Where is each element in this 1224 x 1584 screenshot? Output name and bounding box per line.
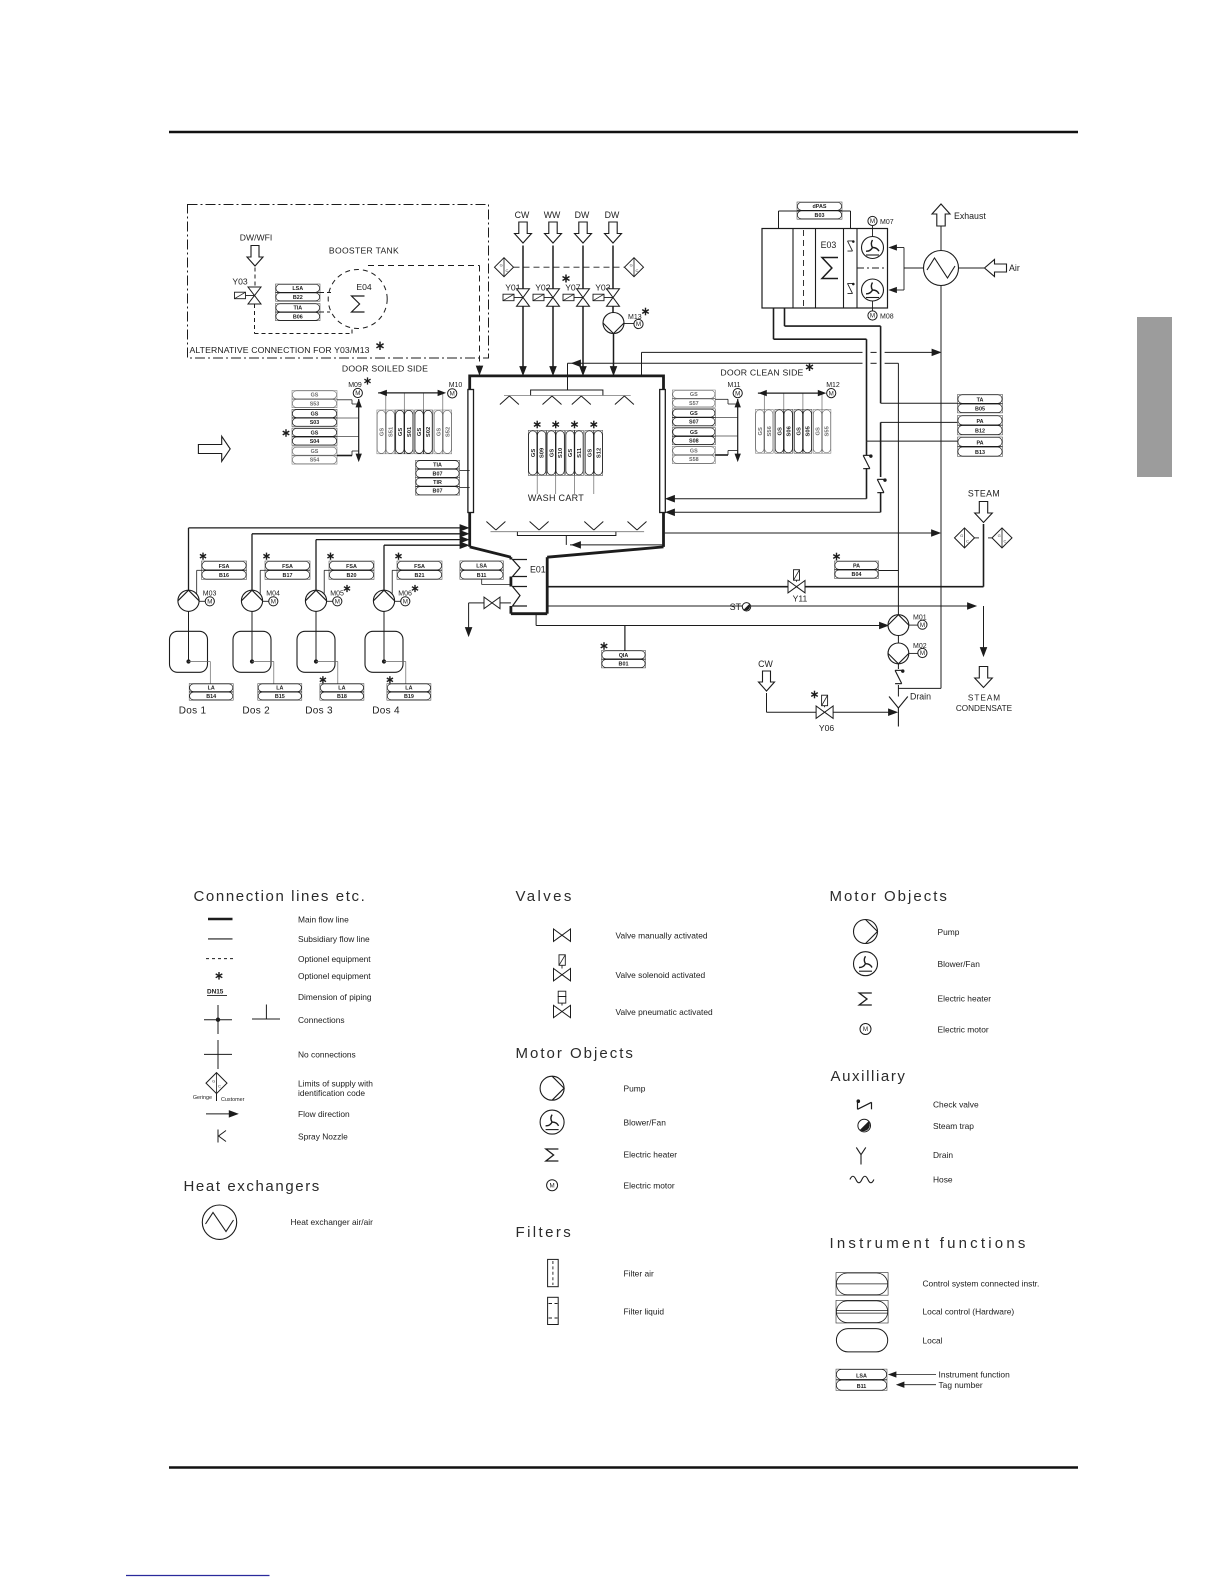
- cart drive arrow M12: [758, 392, 824, 394]
- alternative connection enclosure: [188, 205, 489, 359]
- wire: [612, 246, 614, 289]
- svg-text:Pump: Pump: [624, 1084, 646, 1094]
- svg-text:LA: LA: [405, 686, 412, 692]
- svg-text:GS: GS: [816, 427, 822, 436]
- instrument stack soiled outer: [292, 391, 337, 408]
- svg-text:FSA: FSA: [282, 564, 293, 570]
- valve Y02 solenoid: [547, 289, 560, 298]
- svg-text:GS: GS: [379, 428, 385, 437]
- svg-text:S12: S12: [596, 448, 602, 458]
- svg-text:M09: M09: [348, 382, 362, 389]
- wire: [368, 265, 480, 267]
- valve Y07 solenoid: [577, 289, 590, 298]
- svg-text:Drain: Drain: [910, 692, 931, 702]
- wire: [320, 292, 333, 294]
- wire taps soiled stack: [337, 399, 352, 401]
- valve Y03 solenoid: [607, 289, 620, 298]
- svg-text:S55: S55: [825, 425, 831, 436]
- recirc downcomer wire: [897, 363, 899, 614]
- transfer arrow hollow: [198, 436, 230, 461]
- svg-text:S02: S02: [426, 427, 432, 437]
- wire: [324, 569, 329, 571]
- bottom spray header: [517, 532, 616, 536]
- wire: [552, 307, 554, 373]
- wire: [766, 693, 768, 712]
- svg-text:LA: LA: [276, 686, 283, 692]
- svg-text:B22: B22: [293, 295, 303, 301]
- svg-text:DOOR SOILED SIDE: DOOR SOILED SIDE: [342, 364, 428, 374]
- svg-text:DW: DW: [575, 210, 590, 220]
- wire level tap: [384, 661, 406, 663]
- svg-text:Instrument functions: Instrument functions: [830, 1235, 1029, 1252]
- instrument dPAS B03: [797, 202, 842, 219]
- svg-text:Spray Nozzle: Spray Nozzle: [298, 1131, 348, 1141]
- legend filter air: [548, 1259, 559, 1286]
- svg-text:CW: CW: [758, 659, 773, 669]
- inlet arrow CW: [515, 222, 532, 243]
- legend blower right: [854, 952, 878, 976]
- svg-text:M05: M05: [330, 591, 344, 598]
- motor M07: [868, 216, 877, 225]
- drain symbol: [889, 697, 898, 709]
- wire taps clean stack: [715, 398, 728, 400]
- valve Y06 solenoid: [816, 706, 825, 718]
- svg-text:GS: GS: [417, 428, 423, 437]
- svg-text:DW/WFI: DW/WFI: [240, 233, 272, 243]
- svg-text:LSA: LSA: [476, 564, 487, 570]
- wire: [522, 246, 524, 289]
- svg-text:M02: M02: [913, 643, 927, 650]
- svg-text:S52: S52: [445, 427, 451, 437]
- inlet CW bottom arrow: [759, 671, 775, 691]
- svg-text:B20: B20: [347, 573, 357, 579]
- svg-text:S58: S58: [689, 457, 699, 463]
- wire: [582, 246, 584, 289]
- dosing riser wire M03: [188, 528, 190, 590]
- svg-text:B12: B12: [975, 429, 985, 435]
- chamber instruments GS S09-S12: [536, 421, 538, 429]
- top spray nozzles: [500, 396, 510, 405]
- steam line wire: [547, 586, 983, 588]
- svg-text:Subsidiary flow line: Subsidiary flow line: [298, 934, 370, 944]
- instrument LA B15: [258, 684, 302, 701]
- chamber vent wire: [665, 532, 936, 534]
- exhaust arrow: [932, 204, 950, 226]
- legend instrument function tag example: [836, 1369, 887, 1390]
- limit of supply diamond right: [625, 258, 644, 277]
- svg-text:G: G: [960, 533, 963, 538]
- svg-text:identification code: identification code: [298, 1088, 365, 1098]
- dosing tank 3: [315, 611, 317, 660]
- svg-text:Optionel equipment: Optionel equipment: [298, 954, 371, 964]
- svg-text:B16: B16: [219, 573, 229, 579]
- svg-text:B17: B17: [283, 573, 293, 579]
- svg-text:M: M: [403, 599, 408, 606]
- legend spray nozzle: [217, 1130, 219, 1143]
- legend valve solenoid activated: [559, 955, 565, 966]
- footer link line: [126, 1575, 270, 1577]
- check valve E03 upper: [847, 240, 854, 251]
- svg-text:GS: GS: [758, 427, 764, 436]
- wire to heat exchanger: [904, 267, 923, 269]
- wire: [260, 569, 265, 571]
- svg-text:B21: B21: [415, 573, 425, 579]
- svg-text:Local control (Hardware): Local control (Hardware): [923, 1306, 1015, 1316]
- svg-text:WW: WW: [544, 210, 561, 220]
- dosing riser wire M06: [383, 545, 385, 590]
- wire fan inlet upper: [891, 247, 904, 249]
- instrument TIA B06: [276, 304, 321, 321]
- svg-text:DOOR CLEAN SIDE: DOOR CLEAN SIDE: [720, 368, 803, 378]
- svg-text:B01: B01: [619, 662, 629, 668]
- fan M07: [862, 237, 884, 259]
- svg-text:TA: TA: [977, 397, 984, 403]
- sump drain wire: [535, 614, 537, 626]
- air into chamber upper wire: [866, 468, 868, 499]
- check valve E03 lower: [847, 283, 854, 294]
- svg-text:FSA: FSA: [219, 564, 230, 570]
- steam supply diamond right: [992, 528, 1012, 548]
- svg-text:GS: GS: [797, 427, 803, 436]
- svg-text:B07: B07: [433, 471, 443, 477]
- svg-text:M: M: [829, 390, 834, 397]
- svg-text:M04: M04: [266, 591, 280, 598]
- svg-text:M12: M12: [826, 382, 840, 389]
- instrument FSA B20: [330, 553, 332, 560]
- wire: [582, 307, 584, 373]
- chamber funnel: [470, 547, 511, 557]
- motor M03: [205, 597, 214, 606]
- instrument LA B18: [322, 676, 324, 683]
- dosing tank 2: [251, 611, 253, 660]
- exhaust line: [940, 226, 942, 251]
- legend local control hardware: [836, 1300, 888, 1323]
- svg-text:PA: PA: [976, 440, 983, 446]
- svg-text:Heat exchangers: Heat exchangers: [184, 1178, 321, 1195]
- svg-text:Air: Air: [1009, 263, 1020, 273]
- booster tank E04: [328, 270, 387, 329]
- bottom rule: [169, 1466, 1078, 1469]
- check valve drain: [897, 664, 899, 669]
- svg-text:B07: B07: [433, 489, 443, 495]
- svg-text:Blower/Fan: Blower/Fan: [938, 959, 981, 969]
- svg-text:B03: B03: [815, 213, 825, 219]
- legend pump mid: [540, 1076, 564, 1100]
- svg-text:Y06: Y06: [819, 723, 835, 733]
- svg-text:M03: M03: [203, 591, 217, 598]
- svg-text:B14: B14: [206, 694, 216, 700]
- svg-text:TIA: TIA: [433, 463, 442, 469]
- wire level tap: [252, 661, 274, 663]
- svg-text:S05: S05: [805, 425, 811, 436]
- legend blower mid: [540, 1110, 564, 1134]
- svg-text:M: M: [636, 321, 641, 328]
- legend subsidiary flow line: [208, 938, 233, 940]
- legend main flow line: [208, 918, 233, 920]
- svg-text:GS: GS: [549, 449, 555, 458]
- inlet arrow DW: [575, 222, 592, 243]
- instrument TIA B07: [416, 460, 460, 477]
- legend limits of supply: [206, 1073, 227, 1094]
- sump drain manual valve: [500, 602, 511, 604]
- svg-text:LA: LA: [338, 686, 345, 692]
- svg-text:QIA: QIA: [619, 653, 629, 659]
- wire: [254, 304, 256, 334]
- svg-text:GS: GS: [311, 393, 319, 399]
- svg-text:GS: GS: [436, 428, 442, 437]
- svg-text:Valve pneumatic activated: Valve pneumatic activated: [616, 1007, 713, 1017]
- svg-text:LSA: LSA: [856, 1373, 867, 1379]
- svg-text:Dimension of piping: Dimension of piping: [298, 992, 372, 1002]
- svg-text:Y11: Y11: [793, 594, 808, 604]
- svg-text:Dos 1: Dos 1: [179, 706, 207, 717]
- heater E01 lower sigma: [513, 587, 528, 607]
- svg-text:G: G: [998, 533, 1001, 538]
- svg-text:Flow direction: Flow direction: [298, 1109, 350, 1119]
- svg-text:C: C: [1003, 539, 1006, 544]
- check valve air lower: [877, 478, 886, 492]
- instrument PA B12: [958, 416, 1003, 435]
- wire level tap: [316, 661, 338, 663]
- svg-text:G: G: [500, 262, 503, 267]
- inlet arrow WW: [545, 222, 562, 243]
- cart drive arrow M10: [378, 392, 443, 394]
- svg-text:Valve manually activated: Valve manually activated: [616, 931, 708, 941]
- steam condensate outlet arrow: [975, 667, 993, 688]
- legend connections: [217, 1005, 219, 1034]
- svg-text:GS: GS: [311, 412, 319, 418]
- wire tap PA B04: [879, 570, 899, 572]
- instrument FSA B17: [266, 553, 268, 560]
- svg-text:M01: M01: [913, 615, 927, 622]
- svg-text:Valve solenoid activated: Valve solenoid activated: [616, 970, 706, 980]
- svg-text:M10: M10: [449, 382, 463, 389]
- svg-text:B11: B11: [857, 1384, 867, 1390]
- svg-text:LSA: LSA: [292, 286, 303, 292]
- instrument PA B04: [836, 553, 838, 561]
- legend no connections: [217, 1040, 219, 1069]
- svg-text:C: C: [218, 1084, 221, 1089]
- pump M01: [897, 614, 899, 617]
- svg-text:S03: S03: [310, 420, 320, 426]
- svg-text:WASH CART: WASH CART: [528, 493, 584, 503]
- legend motor right: [860, 1024, 871, 1035]
- svg-text:GS: GS: [311, 449, 319, 455]
- svg-text:B19: B19: [404, 694, 414, 700]
- svg-text:Electric motor: Electric motor: [938, 1024, 989, 1034]
- air inlet arrow: [959, 267, 985, 269]
- svg-text:LA: LA: [208, 686, 215, 692]
- instrument FSA B16: [202, 553, 204, 560]
- svg-text:No connections: No connections: [298, 1050, 356, 1060]
- svg-text:Geringe: Geringe: [193, 1095, 212, 1101]
- svg-text:Optionel equipment: Optionel equipment: [298, 971, 371, 981]
- wire level tap: [189, 661, 211, 663]
- svg-text:M07: M07: [880, 219, 894, 226]
- svg-text:B18: B18: [337, 694, 347, 700]
- svg-text:M: M: [271, 599, 276, 606]
- svg-text:M: M: [355, 390, 360, 397]
- inlet arrow DW: [605, 222, 622, 243]
- legend heater mid: [546, 1149, 559, 1161]
- heater E01 upper sigma: [513, 560, 528, 577]
- svg-text:Valves: Valves: [516, 888, 574, 905]
- svg-text:G: G: [212, 1078, 215, 1083]
- svg-text:Drain: Drain: [933, 1150, 953, 1160]
- svg-text:Motor Objects: Motor Objects: [830, 888, 949, 905]
- air handler E03 body: [762, 229, 888, 309]
- svg-text:M: M: [920, 622, 925, 629]
- wire arrow into chamber: [476, 366, 482, 375]
- svg-text:Customer: Customer: [221, 1097, 245, 1103]
- svg-text:STEAM: STEAM: [968, 694, 1001, 703]
- legend valve manually activated: [554, 929, 563, 941]
- legend optional equipment star: [218, 972, 220, 980]
- svg-text:Electric motor: Electric motor: [624, 1181, 675, 1191]
- legend pump right: [854, 920, 878, 944]
- instrument LA B14: [189, 684, 233, 701]
- limit of supply diamond left: [514, 266, 625, 268]
- bottom spray feed wire: [565, 536, 567, 545]
- svg-text:Dos 3: Dos 3: [305, 706, 333, 717]
- svg-text:CONDENSATE: CONDENSATE: [956, 704, 1013, 713]
- svg-text:GS: GS: [690, 411, 698, 417]
- svg-text:Auxilliary: Auxilliary: [831, 1068, 907, 1085]
- pump M03: [178, 590, 199, 611]
- legend check valve: [857, 1099, 872, 1109]
- instrument LSA B11: [460, 561, 504, 579]
- door drive arrow M09: [358, 399, 360, 459]
- svg-text:Exhaust: Exhaust: [954, 211, 986, 221]
- instrument LA B19: [389, 676, 391, 683]
- svg-text:M: M: [207, 599, 212, 606]
- svg-text:DN15: DN15: [207, 988, 224, 995]
- wire: [983, 524, 985, 587]
- recirculation wire R2: [885, 362, 899, 364]
- hx downcomer wire: [940, 286, 942, 689]
- sump walls: [546, 557, 549, 614]
- wire: [197, 569, 202, 571]
- svg-text:Limits of supply with: Limits of supply with: [298, 1078, 373, 1088]
- svg-text:Tag number: Tag number: [939, 1380, 983, 1390]
- door drive arrow M11: [737, 399, 739, 459]
- air into chamber lower wire: [880, 492, 882, 512]
- pump M05: [305, 590, 326, 611]
- instrument row soiled inner: [377, 410, 395, 454]
- top spray header: [531, 390, 603, 395]
- svg-text:M11: M11: [727, 382, 740, 389]
- legend flow direction: [206, 1113, 230, 1115]
- svg-text:E01: E01: [530, 565, 546, 575]
- duct wire E03 left: [773, 308, 775, 339]
- svg-text:STEAM: STEAM: [968, 489, 1000, 499]
- svg-text:Local: Local: [923, 1335, 943, 1345]
- svg-text:S51: S51: [388, 426, 394, 437]
- svg-text:DW: DW: [605, 210, 620, 220]
- motor M06: [401, 597, 410, 606]
- svg-text:M: M: [550, 1182, 555, 1189]
- door soiled bar: [468, 390, 474, 513]
- dosing riser wire M05: [315, 540, 317, 591]
- steam supply diamond left: [955, 528, 975, 548]
- svg-text:TIR: TIR: [433, 480, 442, 486]
- wire: [522, 307, 524, 373]
- svg-text:Main flow line: Main flow line: [298, 914, 349, 924]
- bottom spray rail: [491, 531, 645, 533]
- svg-text:B13: B13: [975, 450, 985, 456]
- svg-text:E04: E04: [356, 282, 372, 292]
- legend motor mid: [547, 1180, 558, 1191]
- instrument FSA B21: [398, 553, 400, 560]
- wire tap PA B13: [867, 440, 958, 442]
- motor M01: [918, 620, 927, 629]
- motor M04: [269, 597, 278, 606]
- svg-text:Steam trap: Steam trap: [933, 1121, 974, 1131]
- pump M06: [373, 590, 394, 611]
- wire: [254, 268, 256, 287]
- legend valve pneumatic activated: [558, 991, 566, 996]
- svg-text:C: C: [635, 268, 638, 273]
- valve Y11 solenoid: [788, 581, 797, 593]
- svg-text:Electric heater: Electric heater: [938, 993, 992, 1003]
- svg-text:S07: S07: [689, 420, 699, 426]
- heater sigma E03: [822, 258, 838, 279]
- svg-text:S09: S09: [540, 447, 546, 458]
- svg-text:M: M: [450, 391, 455, 398]
- dosing tank 1: [188, 611, 190, 660]
- heat exchanger E02: [924, 251, 959, 286]
- wire tap TA B05: [881, 402, 958, 404]
- svg-text:S11: S11: [577, 447, 583, 458]
- instrument PA B13: [958, 437, 1003, 456]
- legend steam trap: [858, 1119, 871, 1132]
- svg-text:FSA: FSA: [346, 564, 357, 570]
- filter dashed line: [803, 230, 805, 307]
- dosing tank 4: [383, 611, 385, 660]
- svg-text:GS: GS: [587, 449, 593, 458]
- legend heater right: [859, 993, 872, 1005]
- svg-text:M: M: [920, 650, 925, 657]
- svg-text:GS: GS: [568, 449, 574, 458]
- motor M13: [634, 319, 643, 328]
- svg-text:M06: M06: [398, 591, 412, 598]
- wire taps TIA TIR: [460, 469, 470, 471]
- steam inlet arrow: [975, 502, 993, 523]
- svg-text:BOOSTER TANK: BOOSTER TANK: [329, 246, 399, 256]
- svg-text:Connections: Connections: [298, 1015, 345, 1025]
- svg-text:GS: GS: [690, 449, 698, 455]
- svg-text:B05: B05: [975, 407, 985, 413]
- wire: [612, 307, 614, 313]
- svg-text:S10: S10: [558, 448, 564, 458]
- motor M05: [333, 597, 342, 606]
- instrument stack clean outer: [672, 390, 715, 407]
- svg-text:C: C: [505, 268, 508, 273]
- condensate line wire ST: [547, 605, 972, 607]
- svg-text:FSA: FSA: [414, 564, 425, 570]
- gray side tab: [1137, 317, 1172, 477]
- valve Y01 solenoid: [517, 289, 530, 298]
- svg-text:S53: S53: [310, 401, 320, 407]
- svg-text:Filter liquid: Filter liquid: [624, 1306, 665, 1316]
- svg-text:Blower/Fan: Blower/Fan: [624, 1117, 667, 1127]
- instrument QIA B01: [603, 642, 605, 650]
- svg-text:B11: B11: [477, 573, 487, 579]
- svg-text:PA: PA: [853, 563, 860, 569]
- wire: [552, 246, 554, 289]
- pump M02: [897, 636, 899, 644]
- dosing riser wire M04: [251, 534, 253, 591]
